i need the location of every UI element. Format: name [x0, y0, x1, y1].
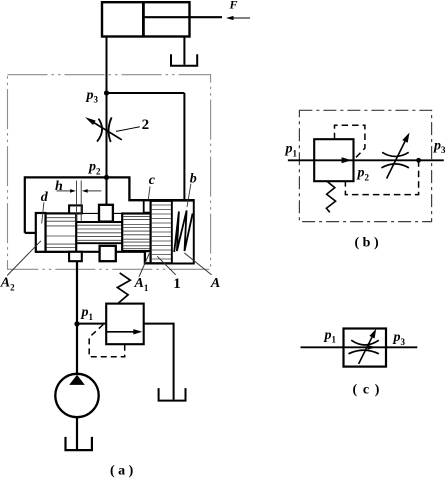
- spring b (valve): [174, 211, 192, 253]
- h dimension arrows: [57, 189, 102, 193]
- svg-text:p2: p2: [88, 160, 101, 177]
- left end cap (area A2 piston d): [36, 213, 46, 252]
- wire relief valve outlet to tank: [144, 324, 174, 400]
- svg-text:F: F: [229, 0, 238, 12]
- main line p1 to p3 (c): [301, 346, 418, 348]
- svg-text:d: d: [41, 190, 49, 205]
- svg-text:A: A: [210, 276, 220, 291]
- junction node after throttle (b): [416, 158, 421, 163]
- leader line of label d: [42, 202, 44, 223]
- relief valve spring: [117, 273, 130, 304]
- valve body step outline right of p2: [107, 177, 194, 263]
- node p1: [74, 321, 79, 326]
- svg-text:p1: p1: [81, 305, 94, 322]
- tank (cylinder drain): [171, 54, 197, 66]
- body block B2: [100, 246, 116, 261]
- pump circle: [55, 374, 98, 417]
- svg-text:p2: p2: [357, 166, 370, 183]
- piston: [142, 2, 145, 36]
- cylinder body: [102, 2, 190, 36]
- wire p3 to throttle to node p2 (main column): [106, 93, 108, 177]
- relief valve 3 box: [106, 304, 144, 345]
- enclosure dash-dot box of valve assembly (a): [8, 75, 211, 270]
- wire cylinder to node p3: [106, 37, 108, 94]
- spool neck (hatched): [76, 222, 122, 243]
- leader line of label A: [184, 253, 211, 275]
- svg-text:A1: A1: [134, 276, 149, 293]
- valve spring (b): [326, 181, 335, 212]
- svg-text:( c ): ( c ): [353, 382, 381, 397]
- svg-text:p1: p1: [285, 142, 298, 159]
- leader line of label A2: [7, 241, 41, 276]
- wire p1 to relief valve 3: [77, 323, 106, 325]
- leader line of label A1: [139, 253, 149, 276]
- relief valve arrow: [106, 329, 142, 334]
- pump triangle: [69, 375, 85, 385]
- body block T2 (p2 port): [99, 205, 113, 222]
- svg-text:2: 2: [142, 117, 150, 133]
- overflow valve box (b): [314, 139, 353, 181]
- enclosure dash-dot box (b): [299, 110, 431, 221]
- wire p3 to right branch: [107, 92, 185, 94]
- throttle arcs (c): [349, 340, 379, 354]
- tank (relief valve drain): [159, 388, 186, 401]
- wire valve inlet port down to node p1: [76, 261, 78, 374]
- feedback dashed line lower (b): [345, 160, 418, 194]
- svg-text:A2: A2: [0, 276, 15, 293]
- leader line of label c: [148, 186, 150, 200]
- svg-text:( a ): ( a ): [110, 464, 134, 478]
- wire p2 to feedback passage (left): [25, 176, 107, 178]
- bore bottom line: [36, 251, 145, 253]
- wire right branch down to spring chamber: [183, 93, 185, 200]
- leader line of label 2: [116, 127, 140, 132]
- port c block edge: [144, 200, 151, 212]
- spool left land (hatched): [46, 213, 77, 251]
- flow arrowhead inside valve box (b): [342, 157, 352, 163]
- svg-text:p3: p3: [86, 88, 99, 105]
- throttle valve 2 adjusting arrow: [85, 117, 122, 140]
- spool middle land (hatched): [122, 214, 150, 252]
- body block T1: [69, 205, 82, 213]
- relief valve pilot dashed line: [89, 325, 125, 357]
- leader line of label 1: [157, 256, 176, 275]
- throttle arcs (b): [381, 152, 409, 168]
- node p2: [104, 175, 109, 180]
- wire p2 down into port T2: [106, 177, 108, 204]
- feedback passage bottom horizontal to end cap: [25, 232, 37, 234]
- h gap dimension thin lines: [76, 181, 78, 222]
- simplified symbol box (c): [344, 329, 387, 367]
- force F arrow: [226, 16, 250, 20]
- svg-text:h: h: [55, 179, 63, 194]
- svg-text:c: c: [149, 173, 156, 188]
- node p3: [104, 90, 109, 95]
- main line p1 to p3 (b): [288, 159, 444, 161]
- wire cylinder rod-side drain: [183, 37, 185, 65]
- svg-text:p3: p3: [393, 330, 406, 347]
- spool right large land 1 (hatched): [151, 201, 172, 263]
- spring chamber A: [172, 201, 194, 263]
- pilot dashed line upper (b): [335, 125, 365, 160]
- tank (pump suction): [66, 437, 92, 450]
- svg-text:( b ): ( b ): [355, 235, 379, 250]
- body block B1 (p1 inlet port): [69, 252, 82, 261]
- bore top thin line: [46, 212, 151, 214]
- flow arrowhead on line (c): [368, 345, 376, 350]
- pump suction pipe: [76, 417, 78, 449]
- piston rod: [143, 16, 222, 18]
- svg-text:1: 1: [173, 276, 181, 292]
- throttle adjusting arrow (c): [359, 329, 377, 364]
- throttle adjusting arrow (b): [387, 133, 410, 179]
- svg-text:p1: p1: [324, 328, 337, 345]
- svg-text:p3: p3: [433, 138, 445, 155]
- throttle valve 2 arcs: [97, 117, 112, 142]
- feedback passage left vertical: [24, 176, 26, 233]
- leader line of label b: [187, 184, 191, 207]
